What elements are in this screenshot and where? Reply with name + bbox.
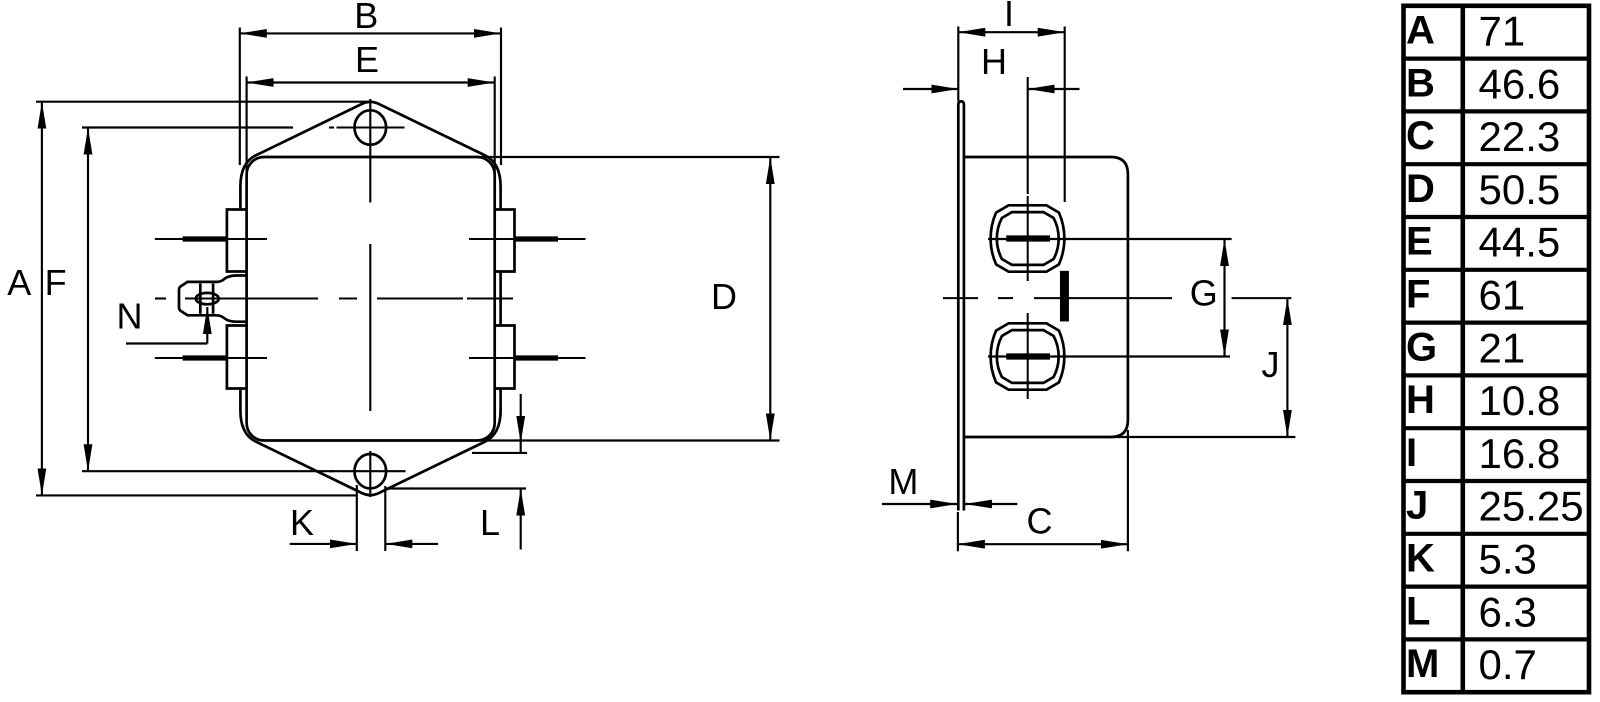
screw terminal top (outer) bbox=[991, 205, 1065, 271]
svg-text:F: F bbox=[45, 262, 67, 303]
svg-text:71: 71 bbox=[1479, 8, 1526, 55]
bottom mounting flange (tent) bbox=[240, 389, 500, 496]
filter body (front view) bbox=[247, 157, 495, 441]
side view mounting plate bbox=[958, 101, 964, 510]
faston terminal hole edge lines bbox=[199, 284, 202, 314]
dimension H arrows bbox=[903, 88, 958, 90]
svg-text:L: L bbox=[480, 502, 500, 543]
dimension M arrows bbox=[882, 503, 957, 505]
terminal tab right-bottom bbox=[495, 326, 515, 389]
screw terminal bottom (outer) bbox=[991, 323, 1065, 389]
terminal tab right-top bbox=[495, 210, 515, 272]
side horizontal centerline bbox=[943, 297, 1291, 299]
top hole crosshair bbox=[329, 126, 334, 128]
svg-text:16.8: 16.8 bbox=[1479, 430, 1561, 477]
screw terminal bottom slot bbox=[1006, 353, 1050, 359]
svg-text:B: B bbox=[354, 0, 378, 36]
top mounting flange (tent) bbox=[240, 102, 500, 210]
side terminal vertical crosshair top bbox=[1027, 196, 1029, 281]
dimension table frame bbox=[1404, 6, 1590, 692]
bottom mounting hole bbox=[355, 454, 387, 488]
svg-text:A: A bbox=[1406, 9, 1435, 53]
table value column bbox=[1479, 8, 1584, 689]
svg-text:C: C bbox=[1406, 114, 1435, 158]
right flange edge between tabs bbox=[499, 272, 502, 326]
svg-text:5.3: 5.3 bbox=[1479, 536, 1537, 583]
dimension J line bbox=[1286, 298, 1288, 437]
pin left-top bbox=[155, 238, 267, 240]
bottom hole crosshair bbox=[329, 470, 334, 472]
dimension G extension lines bbox=[988, 238, 1232, 240]
svg-text:0.7: 0.7 bbox=[1479, 641, 1537, 688]
front vertical centerline bbox=[369, 99, 371, 203]
side view body bbox=[963, 157, 1128, 437]
pin right-top bbox=[469, 238, 586, 240]
svg-text:22.3: 22.3 bbox=[1479, 113, 1561, 160]
side terminal vertical crosshair bottom bbox=[1027, 313, 1029, 399]
dimension I extension line bbox=[957, 27, 959, 102]
dimension L arrows bbox=[520, 394, 522, 443]
svg-text:D: D bbox=[711, 276, 737, 317]
top mounting hole bbox=[355, 110, 387, 144]
svg-text:N: N bbox=[117, 296, 143, 337]
svg-text:F: F bbox=[1406, 273, 1430, 317]
svg-text:46.6: 46.6 bbox=[1479, 60, 1561, 107]
dimension A line bbox=[41, 102, 43, 496]
svg-text:21: 21 bbox=[1479, 324, 1526, 371]
dimension L extension lines bbox=[472, 452, 527, 454]
screw terminal top slot bbox=[1006, 235, 1050, 241]
dimension F line bbox=[87, 128, 89, 472]
dimension K arrows bbox=[290, 543, 357, 545]
dimension D extension lines bbox=[474, 156, 780, 158]
svg-text:E: E bbox=[355, 39, 379, 80]
svg-text:E: E bbox=[1406, 220, 1433, 264]
svg-text:B: B bbox=[1406, 61, 1435, 105]
terminal tab left-top bbox=[227, 210, 247, 272]
svg-text:H: H bbox=[981, 41, 1007, 82]
svg-text:25.25: 25.25 bbox=[1479, 483, 1584, 530]
pin right-bottom bbox=[469, 357, 586, 359]
pin left-bottom bbox=[155, 357, 267, 359]
svg-text:I: I bbox=[1004, 0, 1014, 34]
faston quick-connect terminal (left middle) bbox=[179, 276, 247, 322]
svg-text:K: K bbox=[1406, 537, 1435, 581]
leader N arrow bbox=[126, 342, 207, 344]
terminal tab left-bottom bbox=[227, 326, 247, 389]
dimension F extension lines bbox=[82, 126, 293, 128]
svg-text:K: K bbox=[290, 502, 314, 543]
faston terminal edge-on bar bbox=[1061, 272, 1067, 320]
dimension B extension lines bbox=[239, 28, 241, 166]
dimension B line bbox=[240, 32, 501, 34]
screw terminal bottom (inner) bbox=[997, 330, 1059, 383]
table letter column bbox=[1406, 9, 1439, 687]
screw terminal top (inner) bbox=[997, 212, 1059, 265]
dimension J extension line (bottom) bbox=[1110, 436, 1295, 438]
svg-text:44.5: 44.5 bbox=[1479, 219, 1561, 266]
table row lines bbox=[1404, 56, 1590, 60]
svg-text:M: M bbox=[888, 461, 918, 502]
svg-text:D: D bbox=[1406, 167, 1435, 211]
dimension D line bbox=[769, 157, 771, 441]
dimension E line bbox=[247, 81, 495, 83]
front horizontal centerline bbox=[155, 297, 166, 299]
dimension H extension line bbox=[1027, 77, 1029, 194]
svg-text:50.5: 50.5 bbox=[1479, 166, 1561, 213]
dimension C line bbox=[958, 543, 1128, 545]
svg-text:J: J bbox=[1406, 484, 1428, 528]
svg-text:M: M bbox=[1406, 642, 1439, 686]
svg-text:61: 61 bbox=[1479, 272, 1526, 319]
dimension C extension lines bbox=[957, 512, 959, 551]
dimension I line bbox=[958, 31, 1064, 33]
dimension A extension lines bbox=[36, 101, 371, 103]
svg-text:10.8: 10.8 bbox=[1479, 377, 1561, 424]
dimension E extension lines bbox=[246, 77, 248, 177]
svg-text:6.3: 6.3 bbox=[1479, 588, 1537, 635]
dimension G line bbox=[1223, 239, 1225, 357]
svg-text:G: G bbox=[1406, 325, 1437, 369]
svg-text:J: J bbox=[1262, 344, 1280, 385]
svg-text:I: I bbox=[1406, 431, 1417, 475]
svg-text:A: A bbox=[7, 262, 31, 303]
faston terminal hole (oval) bbox=[196, 293, 219, 304]
svg-text:C: C bbox=[1027, 501, 1053, 542]
svg-text:G: G bbox=[1190, 273, 1218, 314]
svg-text:L: L bbox=[1406, 589, 1430, 633]
dimension K extension lines bbox=[356, 485, 358, 551]
svg-text:H: H bbox=[1406, 378, 1435, 422]
